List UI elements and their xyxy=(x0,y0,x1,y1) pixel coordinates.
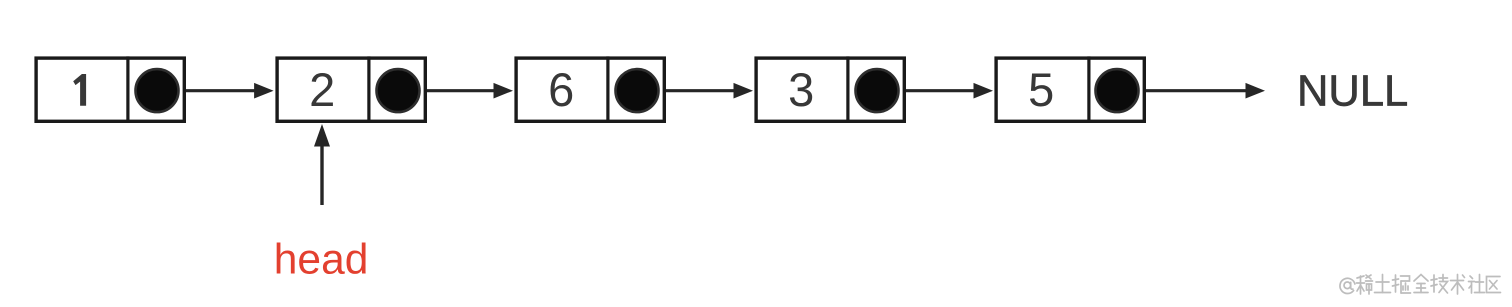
土 xyxy=(1375,275,1391,293)
node 1 divider xyxy=(126,56,129,123)
node 3 divider xyxy=(606,56,609,123)
node 4 divider xyxy=(846,56,849,123)
node 5 value label "5" xyxy=(1028,63,1054,116)
node 5 pointer dot xyxy=(1096,69,1139,112)
node 3 box xyxy=(516,58,664,121)
svg-text:5: 5 xyxy=(1028,63,1054,116)
node 4 pointer dot xyxy=(856,69,899,112)
区 xyxy=(1487,277,1501,293)
社 xyxy=(1469,275,1485,294)
arrow node4 to node5 xyxy=(906,83,993,99)
watermark @稀土掘金技术社区 (simplified vector glyphs) xyxy=(1340,275,1501,295)
svg-text:6: 6 xyxy=(548,63,574,116)
svg-text:NULL: NULL xyxy=(1297,67,1408,115)
head label xyxy=(274,236,369,283)
node 3 value label "6" xyxy=(548,63,574,116)
arrow node1 to node2 xyxy=(186,83,274,99)
arrow node3 to node4 xyxy=(666,83,753,99)
术 xyxy=(1451,275,1465,295)
node 4 box xyxy=(756,58,904,121)
@ xyxy=(1340,278,1355,293)
node 5 box xyxy=(996,58,1144,121)
金 xyxy=(1414,275,1428,293)
NULL label xyxy=(1297,67,1408,115)
node 5 divider xyxy=(1087,56,1090,123)
node 1 box xyxy=(36,58,184,121)
node 3 pointer dot xyxy=(616,69,659,112)
arrow node5 to NULL xyxy=(1146,83,1265,99)
node 1 pointer dot xyxy=(136,69,179,112)
svg-text:2: 2 xyxy=(309,63,335,116)
node 1 value label "1" xyxy=(73,74,86,106)
svg-text:head: head xyxy=(274,236,369,283)
node 2 box xyxy=(277,58,425,121)
node 2 pointer dot xyxy=(377,69,420,112)
node 2 value label "2" xyxy=(309,63,335,116)
技 xyxy=(1431,275,1448,294)
稀 xyxy=(1357,275,1373,294)
node 4 value label "3" xyxy=(788,63,814,116)
head pointer arrow xyxy=(314,124,330,205)
svg-text:3: 3 xyxy=(788,63,814,116)
掘 xyxy=(1393,275,1411,293)
arrow node2 to node3 xyxy=(427,83,513,99)
node 2 divider xyxy=(367,56,370,123)
